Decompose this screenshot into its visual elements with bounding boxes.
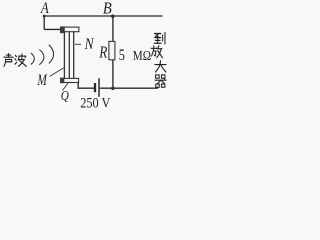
sound wave arc 3	[49, 45, 54, 64]
svg-text:5: 5	[119, 47, 125, 65]
label dao (to)	[154, 32, 165, 44]
label qi (amplifier-3)	[155, 75, 166, 87]
svg-text:N: N	[84, 36, 95, 53]
quartz crystal Q (middle slab)	[68, 32, 70, 79]
bottom electrode cap (terminal)	[60, 78, 64, 84]
top clamp bar	[64, 27, 79, 32]
wire top bus A-B to right	[44, 15, 163, 17]
label bo (wave)	[15, 54, 26, 66]
node B junction dot	[111, 14, 115, 18]
label sheng (sound)	[4, 54, 14, 67]
top electrode cap (terminal)	[60, 26, 64, 33]
wire resistor R down to bottom bus	[112, 60, 114, 88]
svg-text:B: B	[103, 0, 112, 18]
resistor R body	[109, 41, 115, 59]
plate N (right electrode)	[73, 32, 75, 79]
svg-text:M: M	[37, 71, 49, 88]
svg-text:R: R	[98, 44, 107, 62]
label fang (amplify-1)	[151, 46, 162, 58]
label da (amplify-2)	[155, 61, 166, 72]
leader line to plate N	[75, 43, 81, 45]
sound wave arc 1	[31, 53, 35, 65]
wire to top electrode cap	[44, 28, 60, 30]
svg-text:A: A	[40, 0, 49, 17]
sound wave arc 2	[39, 50, 44, 65]
wire B down to resistor R	[112, 16, 114, 41]
junction dot resistor/bottom bus	[111, 87, 115, 91]
battery 250V positive plate (long thin)	[98, 78, 100, 97]
wire battery to bottom bus right	[100, 87, 158, 89]
svg-text:MΩ: MΩ	[133, 48, 151, 63]
plate M (left electrode)	[63, 32, 65, 79]
svg-text:250 V: 250 V	[80, 94, 110, 110]
svg-text:Q: Q	[61, 88, 69, 103]
leader line to crystal Q	[63, 83, 69, 91]
wire from A down	[43, 16, 45, 29]
wire from bottom bar down to battery	[78, 82, 94, 88]
node A junction dot	[43, 15, 46, 18]
leader line to plate M	[50, 68, 64, 77]
bottom clamp bar	[64, 78, 79, 82]
battery 250V negative plate (short thick)	[94, 83, 96, 92]
